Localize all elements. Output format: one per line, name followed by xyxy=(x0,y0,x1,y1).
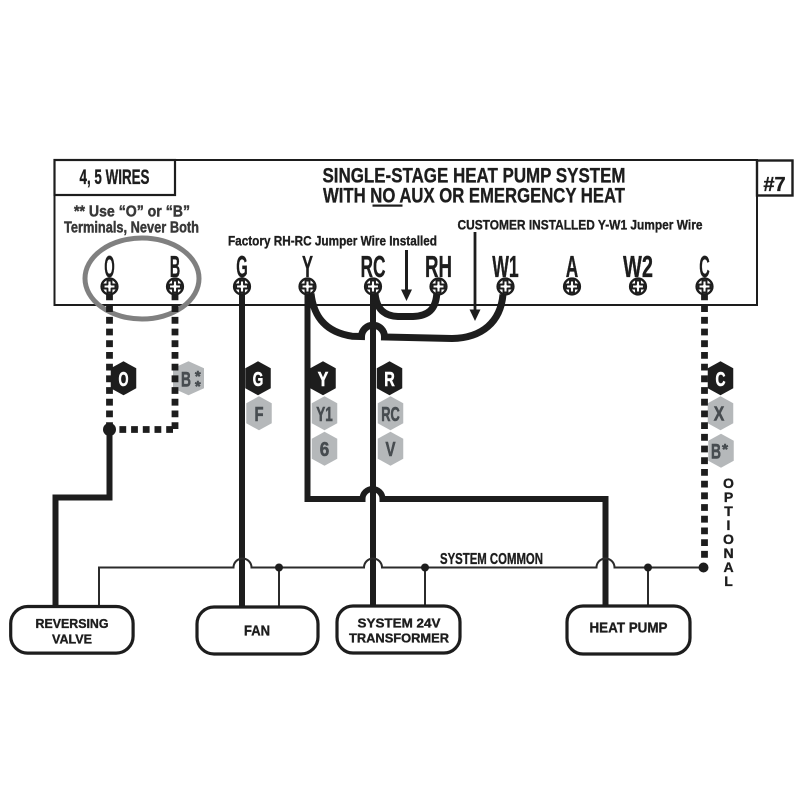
dashed wire from C terminal xyxy=(701,294,708,563)
hex tag F (gray) xyxy=(246,396,272,430)
svg-text:TRANSFORMER: TRANSFORMER xyxy=(349,632,449,646)
svg-text:B: B xyxy=(170,249,181,284)
terminal screw W2 xyxy=(630,279,646,295)
hex tag B** (gray) xyxy=(173,361,204,395)
svg-text:SYSTEM 24V: SYSTEM 24V xyxy=(358,616,442,630)
common drop to fan xyxy=(278,568,280,610)
underline under NO xyxy=(373,205,403,207)
svg-text:R: R xyxy=(384,369,395,391)
jumper RC-RH xyxy=(375,294,437,317)
svg-text:Y: Y xyxy=(302,249,313,284)
terminal screw O xyxy=(102,279,118,295)
svg-text:G: G xyxy=(236,249,248,284)
svg-text:CUSTOMER INSTALLED Y-W1 Jumper: CUSTOMER INSTALLED Y-W1 Jumper Wire xyxy=(458,217,703,233)
dashed wire horizontal B to O junction xyxy=(115,426,173,433)
svg-text:L: L xyxy=(724,573,733,589)
terminal strip outline xyxy=(55,160,758,305)
jumper Y-W1 over R wire xyxy=(311,294,503,339)
svg-text:WITH NO AUX OR EMERGENCY HEAT: WITH NO AUX OR EMERGENCY HEAT xyxy=(323,185,625,208)
common drop to transformer xyxy=(424,568,426,610)
terminal screw B xyxy=(167,279,183,295)
hex tag O (black) xyxy=(111,361,137,395)
hex tag C (black) xyxy=(708,361,734,395)
terminal screw W1 xyxy=(498,279,514,295)
svg-text:X: X xyxy=(714,403,725,425)
svg-text:B: B xyxy=(711,440,721,464)
svg-text:B: B xyxy=(181,368,191,392)
dashed wire from B terminal xyxy=(172,294,179,430)
wire Y (Y terminal down, right, over R, down to heat pump) xyxy=(308,294,606,610)
common drop to heat pump xyxy=(647,568,649,610)
junction dot heat pump xyxy=(644,564,652,572)
wire O/B junction down to reversing valve xyxy=(56,426,110,610)
svg-text:** Use “O” or “B”: ** Use “O” or “B” xyxy=(74,204,190,221)
svg-text:FAN: FAN xyxy=(244,623,270,639)
gray ellipse around O and B xyxy=(85,238,199,319)
svg-text:*: * xyxy=(722,441,728,458)
junction dot transformer xyxy=(421,564,429,572)
arrow to RC-RH jumper xyxy=(401,250,412,301)
svg-text:W1: W1 xyxy=(492,249,519,284)
svg-text:REVERSING: REVERSING xyxy=(36,617,109,631)
svg-text:O: O xyxy=(119,369,129,391)
junction dot fan xyxy=(275,564,283,572)
wire G (G terminal down to fan) xyxy=(239,294,245,610)
arrow to Y-W1 jumper xyxy=(470,232,481,321)
svg-text:SYSTEM COMMON: SYSTEM COMMON xyxy=(440,551,543,568)
box system 24v transformer xyxy=(337,606,460,653)
svg-text:Terminals, Never Both: Terminals, Never Both xyxy=(64,220,199,237)
box fan xyxy=(197,607,318,654)
svg-text:*: * xyxy=(195,379,201,395)
box reversing valve xyxy=(11,607,133,654)
svg-text:F: F xyxy=(255,404,264,426)
svg-text:RC: RC xyxy=(381,404,400,426)
svg-text:4, 5 WIRES: 4, 5 WIRES xyxy=(80,166,150,189)
box heat pump xyxy=(567,606,690,654)
terminal screw C xyxy=(697,279,713,295)
4,5 WIRES label box xyxy=(55,160,176,195)
svg-text:C: C xyxy=(699,249,710,284)
svg-text:C: C xyxy=(716,369,726,391)
svg-text:Y1: Y1 xyxy=(316,404,333,426)
svg-text:W2: W2 xyxy=(623,249,653,284)
svg-text:Y: Y xyxy=(318,369,329,391)
terminal screw Y xyxy=(300,279,316,295)
hex tag G (black) xyxy=(245,361,271,395)
hex tag X (gray) xyxy=(708,396,734,430)
svg-text:V: V xyxy=(386,439,396,461)
svg-text:#7: #7 xyxy=(763,174,785,196)
hex tag R (black) xyxy=(377,361,403,395)
hex tag 6 (gray) xyxy=(312,432,338,466)
junction dot O/B xyxy=(103,423,116,436)
hex tag B* (gray) xyxy=(708,434,734,468)
hex tag Y (black) xyxy=(310,361,336,395)
terminal screw RC xyxy=(365,279,381,295)
terminal screw RH xyxy=(431,279,447,295)
hex tag RC (gray) xyxy=(378,396,404,430)
svg-text:VALVE: VALVE xyxy=(52,632,92,646)
svg-text:G: G xyxy=(253,369,264,391)
OPTIONAL vertical label xyxy=(723,475,734,589)
svg-text:HEAT PUMP: HEAT PUMP xyxy=(590,621,668,637)
svg-text:RC: RC xyxy=(361,249,386,284)
terminal screw G xyxy=(234,279,250,295)
#7 label box xyxy=(757,161,793,196)
junction dot C end xyxy=(699,563,709,573)
wire R (RC terminal down to transformer) xyxy=(370,294,376,610)
svg-text:O: O xyxy=(104,249,115,284)
hex tag Y1 (gray) xyxy=(312,396,338,430)
svg-text:Factory RH-RC Jumper Wire Inst: Factory RH-RC Jumper Wire Installed xyxy=(228,233,437,249)
dashed wire from O terminal xyxy=(106,294,113,426)
svg-text:A: A xyxy=(566,249,579,284)
system common line with arches over G, R, heat-pump wires xyxy=(99,559,703,610)
svg-text:6: 6 xyxy=(320,439,330,461)
svg-text:RH: RH xyxy=(425,249,452,284)
terminal screw A xyxy=(564,279,580,295)
hex tag V (gray) xyxy=(378,432,404,466)
